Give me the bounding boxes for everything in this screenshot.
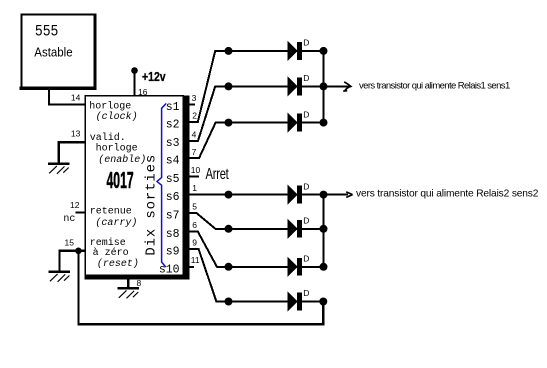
- pin 4 wire to diode row 2: [190, 86, 324, 140]
- pin 11 stub (s10 nub): [190, 266, 195, 268]
- 555 astable box U2: [20, 15, 97, 90]
- junction node row 3 bus: [320, 119, 328, 127]
- junction node row 2: [225, 82, 233, 90]
- svg-text:7: 7: [192, 147, 197, 157]
- svg-text:(enable): (enable): [98, 154, 146, 166]
- svg-text:+12v: +12v: [142, 71, 166, 84]
- pin 15 wire: [59, 251, 85, 271]
- svg-text:D: D: [303, 109, 309, 119]
- svg-text:4017: 4017: [107, 168, 134, 193]
- svg-text:s9: s9: [166, 246, 180, 259]
- ground at pin 15: [49, 270, 71, 282]
- diode D6: [288, 258, 302, 276]
- svg-text:15: 15: [65, 238, 75, 248]
- svg-text:11: 11: [191, 255, 200, 265]
- svg-text:D: D: [303, 38, 309, 48]
- pin 14 label horloge (clock): [89, 101, 137, 123]
- IC 4017 U1 body: [85, 96, 190, 280]
- pin 2 wire to diode row 1: [190, 51, 324, 122]
- svg-text:1: 1: [192, 183, 197, 193]
- arrow to relais2 transistor: [324, 192, 353, 198]
- junction node row C: [225, 263, 233, 271]
- svg-text:D: D: [303, 288, 309, 298]
- svg-text:s5: s5: [166, 173, 180, 186]
- svg-text:6: 6: [192, 220, 197, 230]
- junction node row A bus: [320, 191, 328, 199]
- svg-text:s1: s1: [166, 101, 180, 114]
- svg-text:(carry): (carry): [95, 217, 137, 229]
- svg-text:16: 16: [138, 87, 148, 97]
- ground at pin 13: [48, 162, 70, 174]
- pin 3 stub (s1 nub): [190, 103, 196, 105]
- junction node row 3: [225, 119, 233, 127]
- diode D5: [288, 220, 302, 238]
- svg-text:s2: s2: [166, 118, 180, 131]
- pin 6 wire to diode row C: [190, 232, 324, 267]
- output labels s1-s10: [159, 101, 180, 276]
- ground at pin 8: [118, 287, 140, 299]
- bus wire relais1: [322, 51, 324, 123]
- svg-text:Arret: Arret: [205, 165, 229, 182]
- junction node pin15/reset wire: [75, 248, 82, 255]
- pin 13 wire: [59, 142, 85, 162]
- diode D2: [288, 78, 302, 96]
- diode D7: [288, 293, 302, 311]
- pin 1 wire to diode row A: [190, 194, 324, 196]
- svg-text:D: D: [303, 254, 309, 264]
- svg-text:s10: s10: [159, 263, 180, 276]
- svg-text:s7: s7: [166, 209, 180, 222]
- svg-text:(reset): (reset): [97, 258, 139, 270]
- svg-text:14: 14: [71, 92, 81, 102]
- svg-text:Astable: Astable: [34, 45, 72, 60]
- junction node row C bus: [320, 263, 328, 271]
- diode D4: [288, 186, 302, 204]
- svg-text:13: 13: [71, 128, 81, 138]
- svg-text:555: 555: [35, 23, 58, 41]
- svg-text:s8: s8: [166, 228, 180, 241]
- svg-text:(clock): (clock): [96, 111, 138, 123]
- blue brace for ten outputs: [157, 104, 166, 267]
- svg-text:8: 8: [137, 278, 142, 288]
- svg-text:12: 12: [70, 200, 80, 210]
- svg-text:s3: s3: [166, 137, 180, 150]
- svg-text:s6: s6: [166, 191, 180, 204]
- svg-text:9: 9: [192, 238, 197, 248]
- junction node row A: [225, 191, 233, 199]
- pin 8 ground stub: [127, 280, 129, 288]
- svg-text:à zéro: à zéro: [93, 247, 129, 259]
- junction node row B: [225, 225, 233, 233]
- pin 15 label remise a zero (reset): [90, 237, 139, 270]
- pin 12 stub nc: [75, 211, 85, 213]
- svg-text:4: 4: [192, 129, 197, 139]
- pin 9 wire to diode row D: [190, 249, 324, 301]
- junction node row D: [225, 298, 233, 306]
- svg-text:10: 10: [191, 165, 201, 175]
- bus wire relais2: [322, 195, 324, 267]
- diode D3: [288, 114, 302, 132]
- svg-text:vers transistor qui alimente R: vers transistor qui alimente Relais2 sen…: [356, 189, 539, 200]
- svg-text:nc: nc: [63, 214, 75, 225]
- junction node row 1 bus: [320, 47, 328, 55]
- junction node row 1: [225, 47, 233, 55]
- pin 10 stub Arret: [190, 175, 199, 177]
- svg-text:D: D: [303, 181, 309, 191]
- junction node row B bus: [320, 225, 328, 233]
- diode D1: [288, 42, 302, 60]
- +12v supply node: [131, 67, 166, 96]
- node row D corner: [319, 298, 327, 306]
- pin 5 wire to diode row B: [190, 213, 324, 229]
- reset feedback wire from row D to pin 15: [78, 251, 323, 324]
- pin 7 wire to diode row 3: [190, 123, 324, 159]
- wire 555 output to 4017 pin 14: [49, 89, 86, 105]
- svg-text:vers transistor qui alimente R: vers transistor qui alimente Relais1 sen…: [359, 81, 510, 92]
- svg-text:Dix sorties: Dix sorties: [143, 154, 159, 256]
- svg-text:5: 5: [192, 202, 197, 212]
- svg-text:horloge: horloge: [96, 143, 138, 155]
- svg-text:retenue: retenue: [90, 206, 132, 217]
- svg-text:3: 3: [192, 93, 197, 103]
- svg-text:2: 2: [192, 111, 197, 121]
- svg-text:horloge: horloge: [89, 101, 131, 113]
- svg-text:D: D: [303, 216, 309, 226]
- pin 12 label retenue (carry): [90, 206, 138, 228]
- arrow to relais1 transistor: [324, 82, 351, 91]
- svg-text:s4: s4: [166, 155, 180, 168]
- junction node row 2 bus: [320, 82, 328, 90]
- svg-text:remise: remise: [90, 237, 126, 249]
- svg-text:valid.: valid.: [90, 132, 126, 144]
- svg-text:D: D: [303, 73, 309, 83]
- pin 13 label valid. horloge (enable): [90, 132, 147, 166]
